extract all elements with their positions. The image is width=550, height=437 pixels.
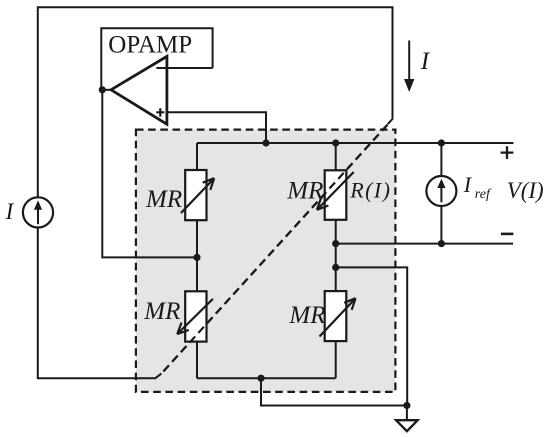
wire: non-inverting input to bridge top rail bbox=[166, 112, 266, 143]
svg-text:V(I): V(I) bbox=[507, 178, 544, 203]
wire: bridge right arm upper bbox=[335, 143, 337, 170]
svg-text:MR: MR bbox=[143, 298, 180, 325]
node: top rail right arm bbox=[332, 139, 339, 146]
arrow of MR bottom-left (down-left) bbox=[177, 299, 213, 334]
wire: apex stub bbox=[102, 89, 112, 91]
svg-text:I: I bbox=[463, 172, 473, 197]
plus sign (non-inverting input) bbox=[156, 108, 164, 116]
- terminal sign bbox=[501, 233, 514, 236]
node: bridge bottom bbox=[257, 375, 264, 382]
node: Iref bottom rail bbox=[438, 240, 445, 247]
wire: inverting input (with minus stub) to OPAMP box bbox=[156, 67, 212, 69]
wire: ground stub bbox=[406, 406, 408, 421]
wire: dashed diagonal current path through bridge bbox=[161, 124, 388, 373]
ground symbol bbox=[396, 420, 418, 431]
wire: bridge top rail to + terminal bbox=[197, 142, 513, 144]
svg-text:MR: MR bbox=[286, 178, 323, 205]
arrow of MR top-right (down-left) bbox=[317, 172, 354, 210]
wire: bridge bottom to ground rail bbox=[261, 378, 407, 405]
resistor MR bottom-left body bbox=[185, 291, 206, 341]
resistor MR bottom-right body bbox=[325, 291, 347, 341]
node: left mid bbox=[193, 254, 200, 261]
arrow I (current direction, top right) bbox=[408, 41, 410, 81]
bridge region gray dashed box bbox=[136, 130, 396, 392]
node: ground junction bbox=[403, 402, 410, 409]
wire: outer loop bottom (current source bottom to diagonal chamfer) bbox=[38, 228, 162, 379]
wire: right arm middle bbox=[335, 220, 337, 291]
svg-text:MR: MR bbox=[288, 302, 325, 329]
node: op-amp output junction bbox=[99, 86, 106, 93]
node: right mid lower bbox=[332, 264, 339, 271]
op-amp U1 triangle bbox=[111, 56, 167, 124]
wire: outer loop top (current source top to right drop) bbox=[38, 7, 393, 197]
wire: bridge bottom rail bbox=[197, 377, 336, 379]
svg-text:MR: MR bbox=[145, 186, 182, 213]
node: top rail Iref bbox=[438, 139, 445, 146]
+ terminal sign bbox=[501, 146, 514, 159]
wire: right mid node to - terminal bbox=[336, 243, 513, 245]
svg-text:R(I): R(I) bbox=[349, 178, 391, 203]
wire: dashed diagonal over resistors (redraw on top) bbox=[161, 124, 388, 373]
resistor MR top-left body bbox=[185, 170, 206, 220]
wire: right arm lower bbox=[335, 341, 337, 378]
current source Iref bbox=[426, 176, 456, 206]
wire: right mid node to ground drop bbox=[336, 267, 408, 405]
node: right mid upper bbox=[332, 240, 339, 247]
wire: left arm middle bbox=[196, 220, 198, 291]
svg-text:ref: ref bbox=[475, 187, 492, 202]
current source I (left) bbox=[23, 197, 53, 227]
svg-text:OPAMP: OPAMP bbox=[108, 32, 192, 59]
svg-text:I: I bbox=[5, 199, 15, 224]
op-amp label box OPAMP bbox=[101, 28, 212, 90]
arrow of MR bottom-right (up-right) bbox=[320, 298, 356, 336]
wire: op-amp output down-left to bridge left mid node bbox=[102, 90, 197, 258]
arrow of MR top-left (up-right) bbox=[181, 178, 214, 213]
resistor MR/R(I) top-right body bbox=[325, 170, 347, 220]
wire: bridge left arm upper bbox=[196, 143, 198, 170]
wire: left arm lower bbox=[196, 342, 198, 379]
current source Iref branch wire bbox=[440, 143, 442, 244]
svg-text:I: I bbox=[420, 48, 431, 75]
node: + input on top rail bbox=[262, 139, 269, 146]
